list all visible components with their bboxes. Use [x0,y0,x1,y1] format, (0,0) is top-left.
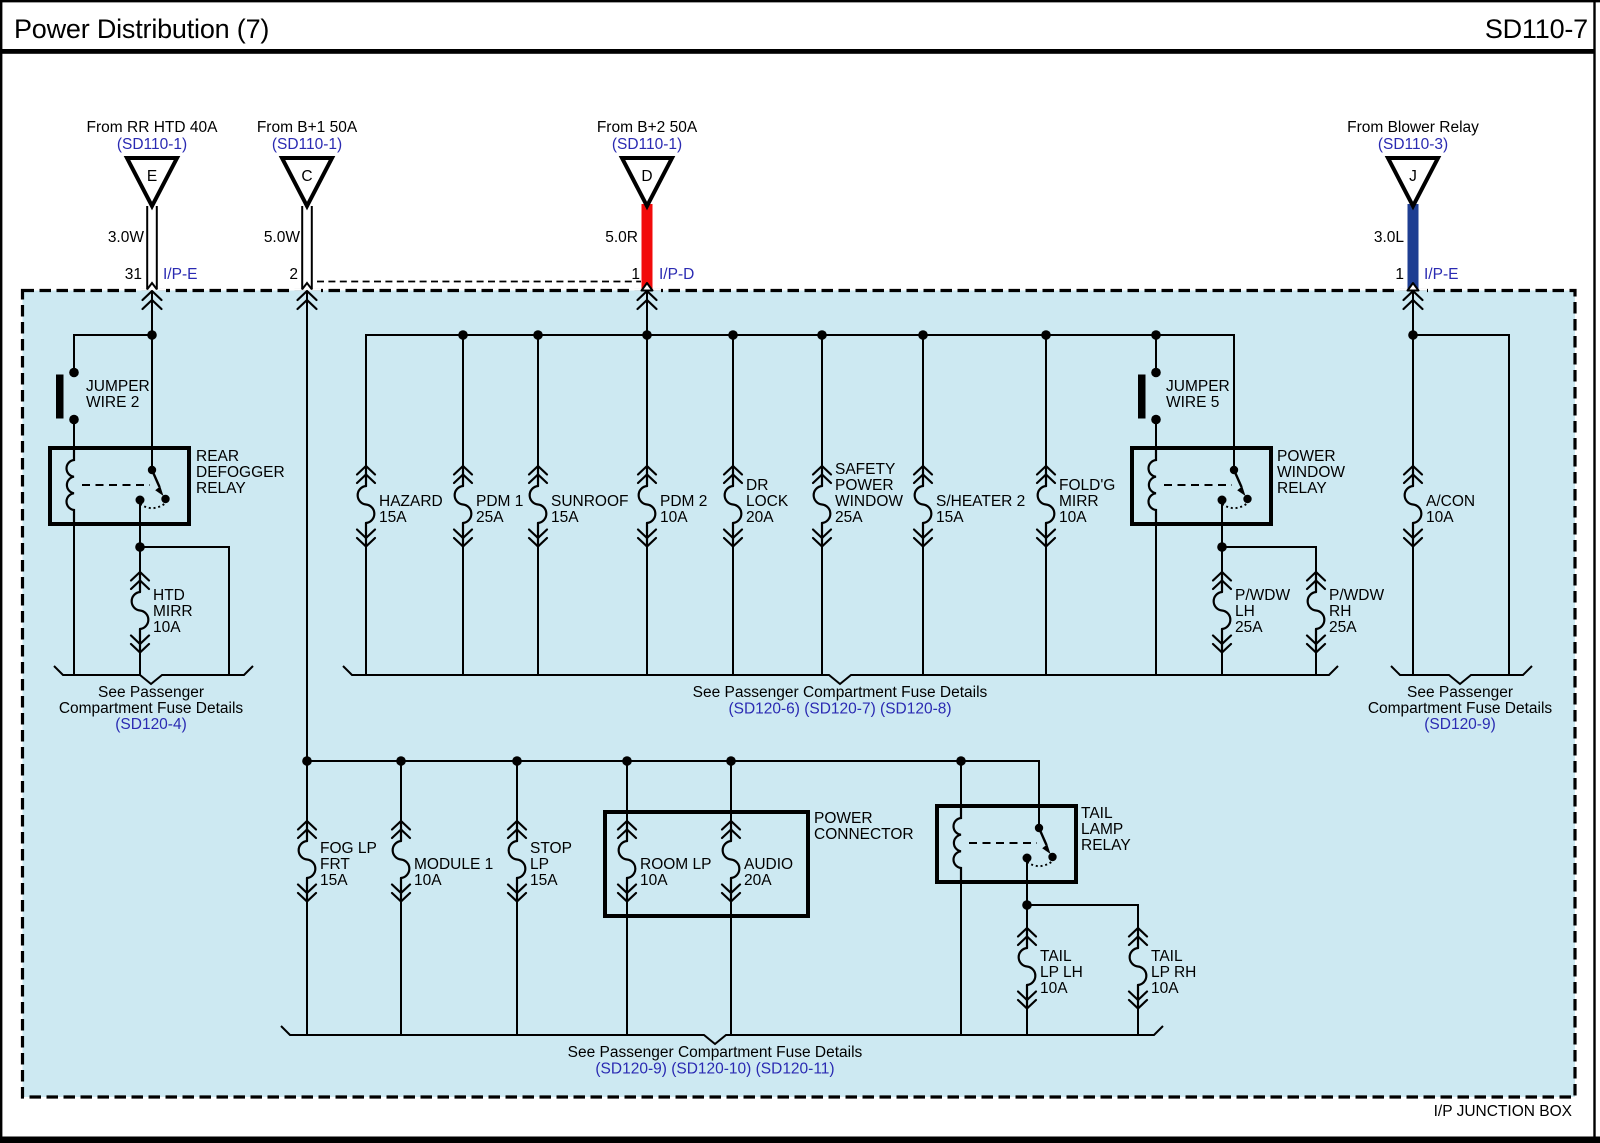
entry arrow D [638,291,657,309]
svg-text:TAIL: TAIL [1081,805,1113,822]
svg-text:(SD120-9) (SD120-10) (SD120-11: (SD120-9) (SD120-10) (SD120-11) [595,1061,834,1078]
svg-text:(SD110-1): (SD110-1) [117,136,187,153]
wire TL coil to collector [960,882,962,1035]
node SUNROOF [533,330,543,340]
svg-text:DR: DR [746,477,768,494]
svg-text:Compartment Fuse Details: Compartment Fuse Details [1368,700,1553,717]
svg-text:DEFOGGER: DEFOGGER [196,464,285,481]
svg-text:JUMPER: JUMPER [86,378,150,395]
wire E (3.0W double line) [147,206,157,290]
node MODULE [396,756,406,766]
wire D drop [646,291,648,466]
wire coil to collector [73,524,75,675]
svg-text:10A: 10A [1426,509,1454,526]
border gaps at wire entries [138,289,1427,293]
svg-text:10A: 10A [1040,980,1068,997]
svg-text:RH: RH [1329,603,1351,620]
svg-text:SAFETY: SAFETY [835,461,895,478]
node ROOM [622,756,632,766]
collector middle [343,666,1338,684]
fuse AUDIO 20A [730,761,732,821]
fuse MODULE 1 10A [400,761,402,821]
svg-text:1: 1 [631,266,640,283]
svg-text:(SD110-1): (SD110-1) [612,136,682,153]
fuse STOP LP 15A [516,761,518,821]
svg-text:STOP: STOP [530,840,572,857]
svg-text:10A: 10A [660,509,688,526]
svg-text:From Blower Relay: From Blower Relay [1347,119,1479,136]
wire fuse to collector [139,653,141,676]
svg-text:10A: 10A [153,619,181,636]
svg-text:MODULE 1: MODULE 1 [414,856,493,873]
node PDM1 [458,330,468,340]
svg-text:15A: 15A [379,509,407,526]
svg-text:(SD110-1): (SD110-1) [272,136,342,153]
svg-text:S/HEATER 2: S/HEATER 2 [936,493,1025,510]
dashed connector line C to D [317,281,641,283]
wire TAIL relay coil feed [960,761,962,806]
wire jumper5 feed [1155,335,1157,372]
svg-text:HTD: HTD [153,587,185,604]
wire branch to jumper 2 [74,335,152,372]
relay TAIL LAMP [937,806,1076,882]
wire relay output [139,524,141,572]
svg-text:WINDOW: WINDOW [835,493,903,510]
svg-text:LP: LP [530,856,549,873]
wire branch right [140,547,229,675]
I/P junction box (dashed blue box) [23,291,1576,1098]
svg-text:I/P-E: I/P-E [1424,266,1458,283]
relay POWER WINDOW [1132,448,1271,524]
svg-text:(SD120-6) (SD120-7) (SD120-8): (SD120-6) (SD120-7) (SD120-8) [728,701,951,718]
fuse SUNROOF 15A [537,335,539,466]
svg-text:LAMP: LAMP [1081,821,1123,838]
svg-text:Compartment Fuse Details: Compartment Fuse Details [59,700,244,717]
connector C triangle [282,158,332,206]
node FOLD'G [1041,330,1051,340]
svg-text:AUDIO: AUDIO [744,856,793,873]
node FOG [302,756,312,766]
svg-text:SUNROOF: SUNROOF [551,493,629,510]
fuse A/CON 10A [1404,466,1422,547]
svg-text:LP RH: LP RH [1151,964,1196,981]
fuse FOG LP FRT 15A [306,761,308,821]
svg-text:15A: 15A [530,872,558,889]
node TAIL relay [956,756,966,766]
svg-text:15A: 15A [551,509,579,526]
svg-text:LH: LH [1235,603,1255,620]
node SAFETY [817,330,827,340]
entry arrow E [143,291,162,309]
svg-text:See Passenger: See Passenger [1407,684,1513,701]
svg-text:E: E [147,168,157,185]
svg-text:15A: 15A [936,509,964,526]
entry arrow C [298,291,317,309]
svg-text:3.0W: 3.0W [108,229,145,246]
fuse PDM 2 10A [638,466,656,547]
node STOP [512,756,522,766]
svg-text:RELAY: RELAY [196,480,246,497]
svg-text:P/WDW: P/WDW [1329,587,1384,604]
svg-text:25A: 25A [835,509,863,526]
node J bus [1408,330,1418,340]
fuse FOLD'G MIRR 10A [1045,335,1047,466]
main bus [366,335,1234,470]
svg-text:1: 1 [1395,266,1404,283]
collector right [1391,666,1532,684]
fuse DR LOCK 20A [732,335,734,466]
node E bus [147,330,157,340]
wire branch to TAIL RH [1027,905,1138,928]
svg-text:P/WDW: P/WDW [1235,587,1290,604]
svg-text:I/P-E: I/P-E [163,266,197,283]
svg-text:JUMPER: JUMPER [1166,378,1230,395]
power connector box [605,812,808,916]
svg-text:I/P-D: I/P-D [659,266,694,283]
node PW output [1217,542,1227,552]
node JUMPER5 [1151,330,1161,340]
wire D (5.0R red) [642,204,653,290]
fuse P/WDW RH 25A [1307,572,1325,653]
wire TL output [1026,882,1028,928]
svg-text:D: D [641,168,652,185]
svg-text:FRT: FRT [320,856,350,873]
svg-text:20A: 20A [744,872,772,889]
svg-text:FOLD'G: FOLD'G [1059,477,1115,494]
svg-text:(SD120-4): (SD120-4) [115,716,187,733]
svg-text:2: 2 [289,266,298,283]
svg-text:10A: 10A [640,872,668,889]
svg-text:RELAY: RELAY [1081,837,1131,854]
node DR LOCK [728,330,738,340]
svg-text:(SD110-3): (SD110-3) [1378,136,1448,153]
svg-text:SD110-7: SD110-7 [1485,14,1588,44]
entry arrow J [1404,291,1423,309]
svg-text:PDM 2: PDM 2 [660,493,707,510]
svg-text:WIRE 5: WIRE 5 [1166,394,1219,411]
wire C (5.0W double line) [302,206,312,290]
svg-text:RELAY: RELAY [1277,480,1327,497]
wire branch right [1413,335,1509,675]
svg-text:From B+2 50A: From B+2 50A [597,119,698,136]
wire J drop [1412,291,1414,466]
wire branch to P/WDW RH [1222,547,1316,572]
svg-text:C: C [301,168,312,185]
svg-text:Power Distribution (7): Power Distribution (7) [14,14,269,44]
svg-text:WIRE 2: WIRE 2 [86,394,139,411]
lower bus [307,761,1039,827]
svg-text:CONNECTOR: CONNECTOR [814,826,914,843]
fuse HAZARD 15A [357,466,375,547]
fuse ROOM LP 10A [626,761,628,821]
fuse HTD MIRR 10A [131,572,149,653]
svg-text:(SD120-9): (SD120-9) [1424,716,1496,733]
svg-text:REAR: REAR [196,448,239,465]
wire PW coil to collector [1155,524,1157,675]
svg-text:PDM 1: PDM 1 [476,493,523,510]
svg-text:5.0R: 5.0R [605,229,638,246]
wire C long drop [306,291,308,761]
wire J (3.0L navy) [1408,204,1419,290]
svg-text:TAIL: TAIL [1040,948,1072,965]
fuse TAIL LP LH 10A [1018,928,1036,1009]
svg-text:5.0W: 5.0W [264,229,301,246]
svg-text:J: J [1409,168,1417,185]
svg-text:20A: 20A [746,509,774,526]
fuse TAIL LP RH 10A [1129,928,1147,1009]
svg-text:ROOM LP: ROOM LP [640,856,711,873]
svg-text:10A: 10A [414,872,442,889]
svg-text:HAZARD: HAZARD [379,493,443,510]
connector D triangle [622,158,672,206]
svg-text:TAIL: TAIL [1151,948,1183,965]
svg-text:From RR HTD 40A: From RR HTD 40A [87,119,219,136]
relay REAR DEFOGGER [50,448,189,524]
connector E triangle [127,158,177,206]
svg-text:25A: 25A [1329,619,1357,636]
wire jumper to relay coil [73,420,75,449]
node TL output [1022,900,1032,910]
svg-text:See Passenger: See Passenger [98,684,204,701]
svg-text:LOCK: LOCK [746,493,789,510]
svg-text:See Passenger Compartment Fuse: See Passenger Compartment Fuse Details [693,684,988,701]
svg-text:15A: 15A [320,872,348,889]
svg-text:See Passenger Compartment Fuse: See Passenger Compartment Fuse Details [568,1044,863,1061]
svg-text:25A: 25A [1235,619,1263,636]
collector left [54,666,253,684]
svg-text:I/P JUNCTION BOX: I/P JUNCTION BOX [1434,1103,1573,1120]
svg-text:10A: 10A [1151,980,1179,997]
fuse S/HEATER 2 15A [922,335,924,466]
svg-text:A/CON: A/CON [1426,493,1475,510]
svg-text:From B+1 50A: From B+1 50A [257,119,358,136]
jumper wire 5 [1138,368,1161,425]
wire jumper5 to relay coil [1155,420,1157,449]
node relay output [135,542,145,552]
svg-text:31: 31 [125,266,142,283]
node S/HEATER [918,330,928,340]
fuse PDM 1 25A [462,335,464,466]
wire PW output [1221,524,1223,572]
svg-text:MIRR: MIRR [153,603,193,620]
svg-text:POWER: POWER [835,477,894,494]
svg-text:LP LH: LP LH [1040,964,1083,981]
fuse P/WDW LH 25A [1213,572,1231,653]
node AUDIO [726,756,736,766]
svg-text:WINDOW: WINDOW [1277,464,1345,481]
svg-text:POWER: POWER [814,810,873,827]
svg-text:3.0L: 3.0L [1374,229,1405,246]
jumper wire 2 [56,368,79,425]
svg-text:MIRR: MIRR [1059,493,1099,510]
collector bottom [281,1026,1163,1044]
connector J triangle [1388,158,1438,206]
wire E drop to relay [151,291,153,470]
node D [642,330,652,340]
svg-text:25A: 25A [476,509,504,526]
svg-text:FOG LP: FOG LP [320,840,377,857]
svg-text:POWER: POWER [1277,448,1336,465]
svg-text:10A: 10A [1059,509,1087,526]
fuse SAFETY POWER WINDOW 25A [821,335,823,466]
